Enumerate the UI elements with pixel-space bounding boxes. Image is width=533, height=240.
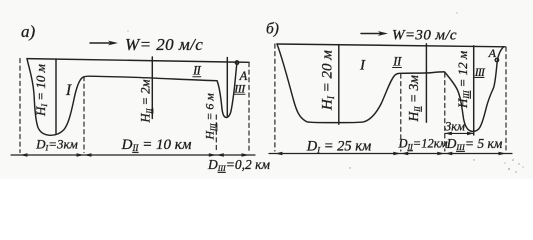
svg-text:НI = 10 м: НI = 10 м [33,64,49,117]
wind arrow W=20 [90,42,114,44]
svg-text:III: III [233,82,246,96]
svg-text:б): б) [266,21,279,38]
svg-text:A: A [239,69,248,83]
svg-text:W=30 м/с: W=30 м/с [392,28,457,44]
rotated label H_I=10m a [33,64,49,117]
depth line H_III a [226,58,228,117]
svg-text:DIII= 5 км: DIII= 5 км [446,136,503,152]
water line b [277,44,505,47]
dashed extension x=445 b [444,73,446,151]
rotated label H_I=20m b [320,50,336,111]
svg-text:DII = 10 км: DII = 10 км [121,137,192,153]
point A marker circle b [495,58,498,61]
svg-text:НII = 2м: НII = 2м [139,80,154,124]
svg-text:а): а) [21,22,36,41]
water line a [27,59,249,63]
svg-text:I: I [65,82,72,99]
svg-text:A: A [488,46,497,60]
dashed extension x=275 b [274,44,276,151]
dashed extension x=249 a [248,63,250,153]
svg-text:DI=3км: DI=3км [35,137,78,153]
dashed extension x=84 a [83,77,85,153]
dashed extension x=216 a [215,115,217,153]
dashed extension x=506 b [505,47,507,151]
dimension line b [269,153,512,155]
3km small dimension b [445,132,474,134]
depth line H_III b [473,46,475,135]
svg-text:I: I [359,58,366,74]
depth line H_I b [338,45,340,125]
arrowheads dimension b [275,152,506,155]
rotated label H_III=6m a [203,93,218,141]
depth line H_I a [55,59,57,134]
svg-text:НIII = 6 м: НIII = 6 м [203,93,218,141]
rotated label H_III=12m b [455,51,471,109]
svg-text:II: II [392,54,402,69]
svg-text:НIII = 12 м: НIII = 12 м [455,51,471,109]
wind arrow W=30 [361,33,384,35]
point A marker circle a [235,61,238,64]
bottom profile a (basins I, II shelf, III) [27,59,237,136]
svg-text:НII = 3м: НII = 3м [406,75,422,123]
dimension line a [11,154,255,156]
depth line H_II a [151,57,153,119]
dashed extension x=401 b [400,74,402,151]
svg-text:W= 20 м/с: W= 20 м/с [125,35,203,54]
svg-text:НI = 20 м: НI = 20 м [320,50,336,111]
scan noise specks [127,12,523,172]
rotated label H_II=2m a [139,80,154,124]
svg-text:DIII=0,2 км: DIII=0,2 км [207,157,270,173]
svg-text:3км: 3км [444,119,465,133]
depth line H_II b [425,44,427,122]
rotated label H_II=3m b [406,75,422,123]
svg-text:DII=12км: DII=12км [397,136,447,151]
dashed extension x=20 a [19,59,21,153]
arrowheads dimension a [20,153,249,156]
bottom profile b [277,44,504,131]
svg-text:DI = 25 км: DI = 25 км [306,139,372,155]
